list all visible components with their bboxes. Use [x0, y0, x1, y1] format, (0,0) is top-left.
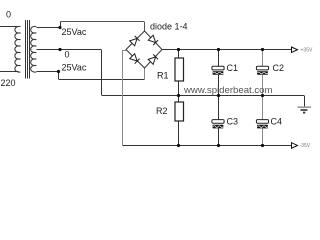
- svg-text:R2: R2: [156, 106, 168, 116]
- svg-text:0: 0: [6, 10, 11, 20]
- svg-text:C2: C2: [273, 63, 285, 73]
- svg-text:C1: C1: [227, 63, 239, 73]
- svg-text:C3: C3: [227, 117, 239, 127]
- svg-text:C4: C4: [271, 117, 283, 127]
- svg-text:R1: R1: [157, 71, 169, 81]
- svg-text:+35V: +35V: [301, 48, 313, 54]
- svg-text:25Vac: 25Vac: [62, 27, 87, 37]
- svg-text:www.spiderbeat.com: www.spiderbeat.com: [183, 85, 273, 96]
- svg-text:25Vac: 25Vac: [62, 63, 87, 73]
- svg-text:0: 0: [65, 50, 70, 60]
- svg-text:-35V: -35V: [300, 143, 311, 149]
- svg-text:diode 1-4: diode 1-4: [150, 22, 188, 32]
- svg-text:220: 220: [1, 78, 16, 88]
